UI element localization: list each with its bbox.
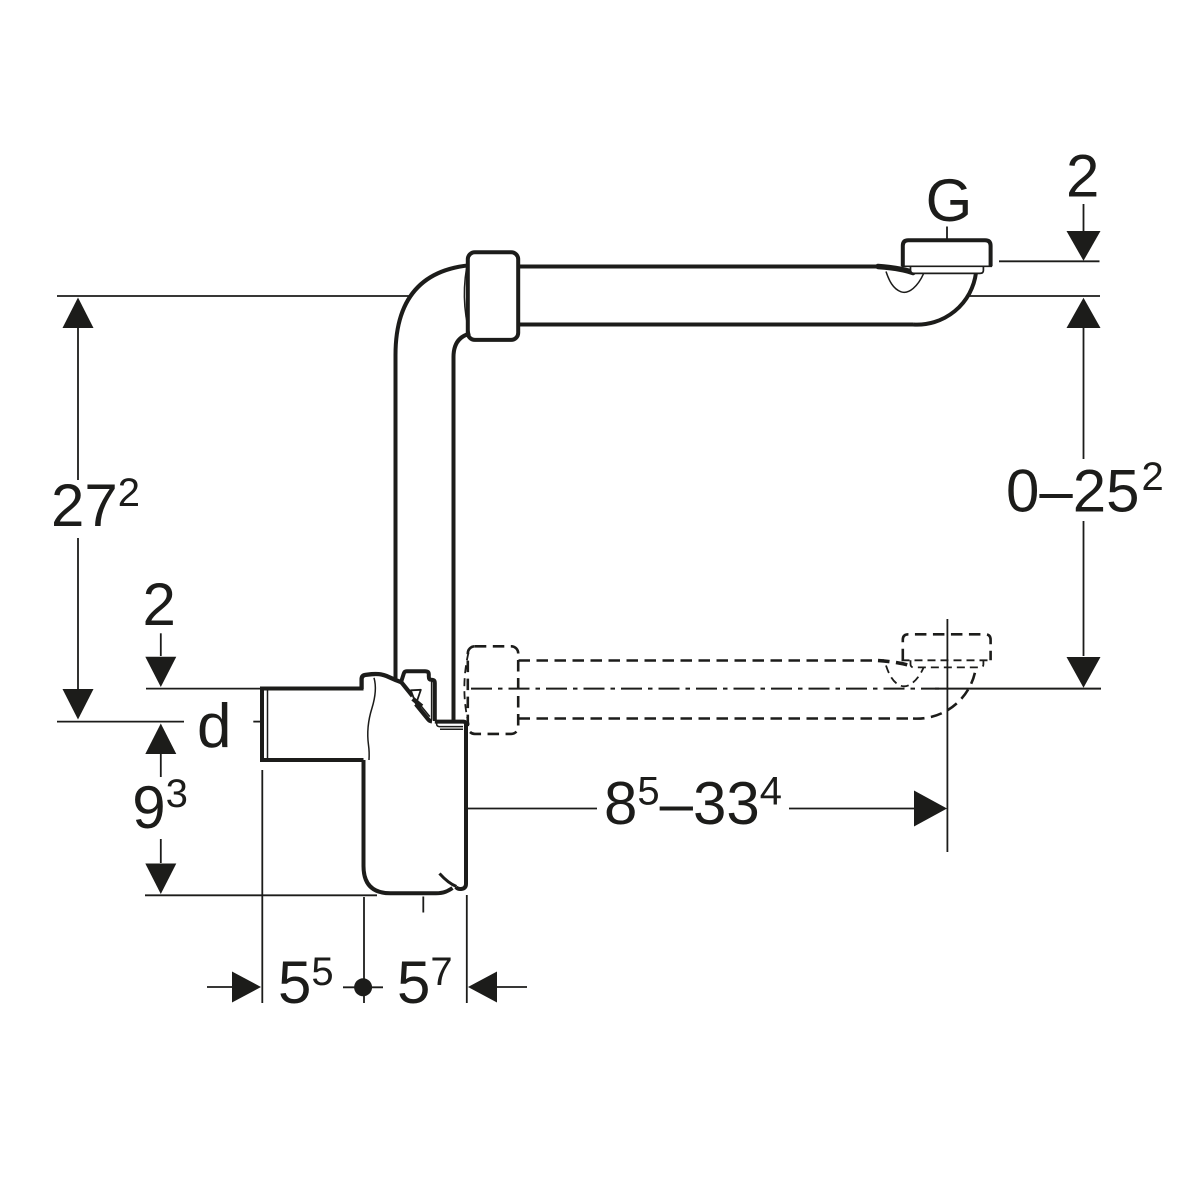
svg-text:8: 8 xyxy=(604,770,637,837)
svg-text:G: G xyxy=(926,167,973,234)
svg-text:5: 5 xyxy=(397,949,430,1016)
svg-text:2: 2 xyxy=(143,571,176,638)
svg-text:d: d xyxy=(197,692,231,761)
svg-text:5: 5 xyxy=(278,949,311,1016)
svg-text:–33: –33 xyxy=(660,770,760,837)
svg-text:27: 27 xyxy=(51,472,118,539)
svg-text:2: 2 xyxy=(1066,143,1099,210)
svg-text:9: 9 xyxy=(132,774,165,841)
svg-text:0–25: 0–25 xyxy=(1006,458,1139,525)
